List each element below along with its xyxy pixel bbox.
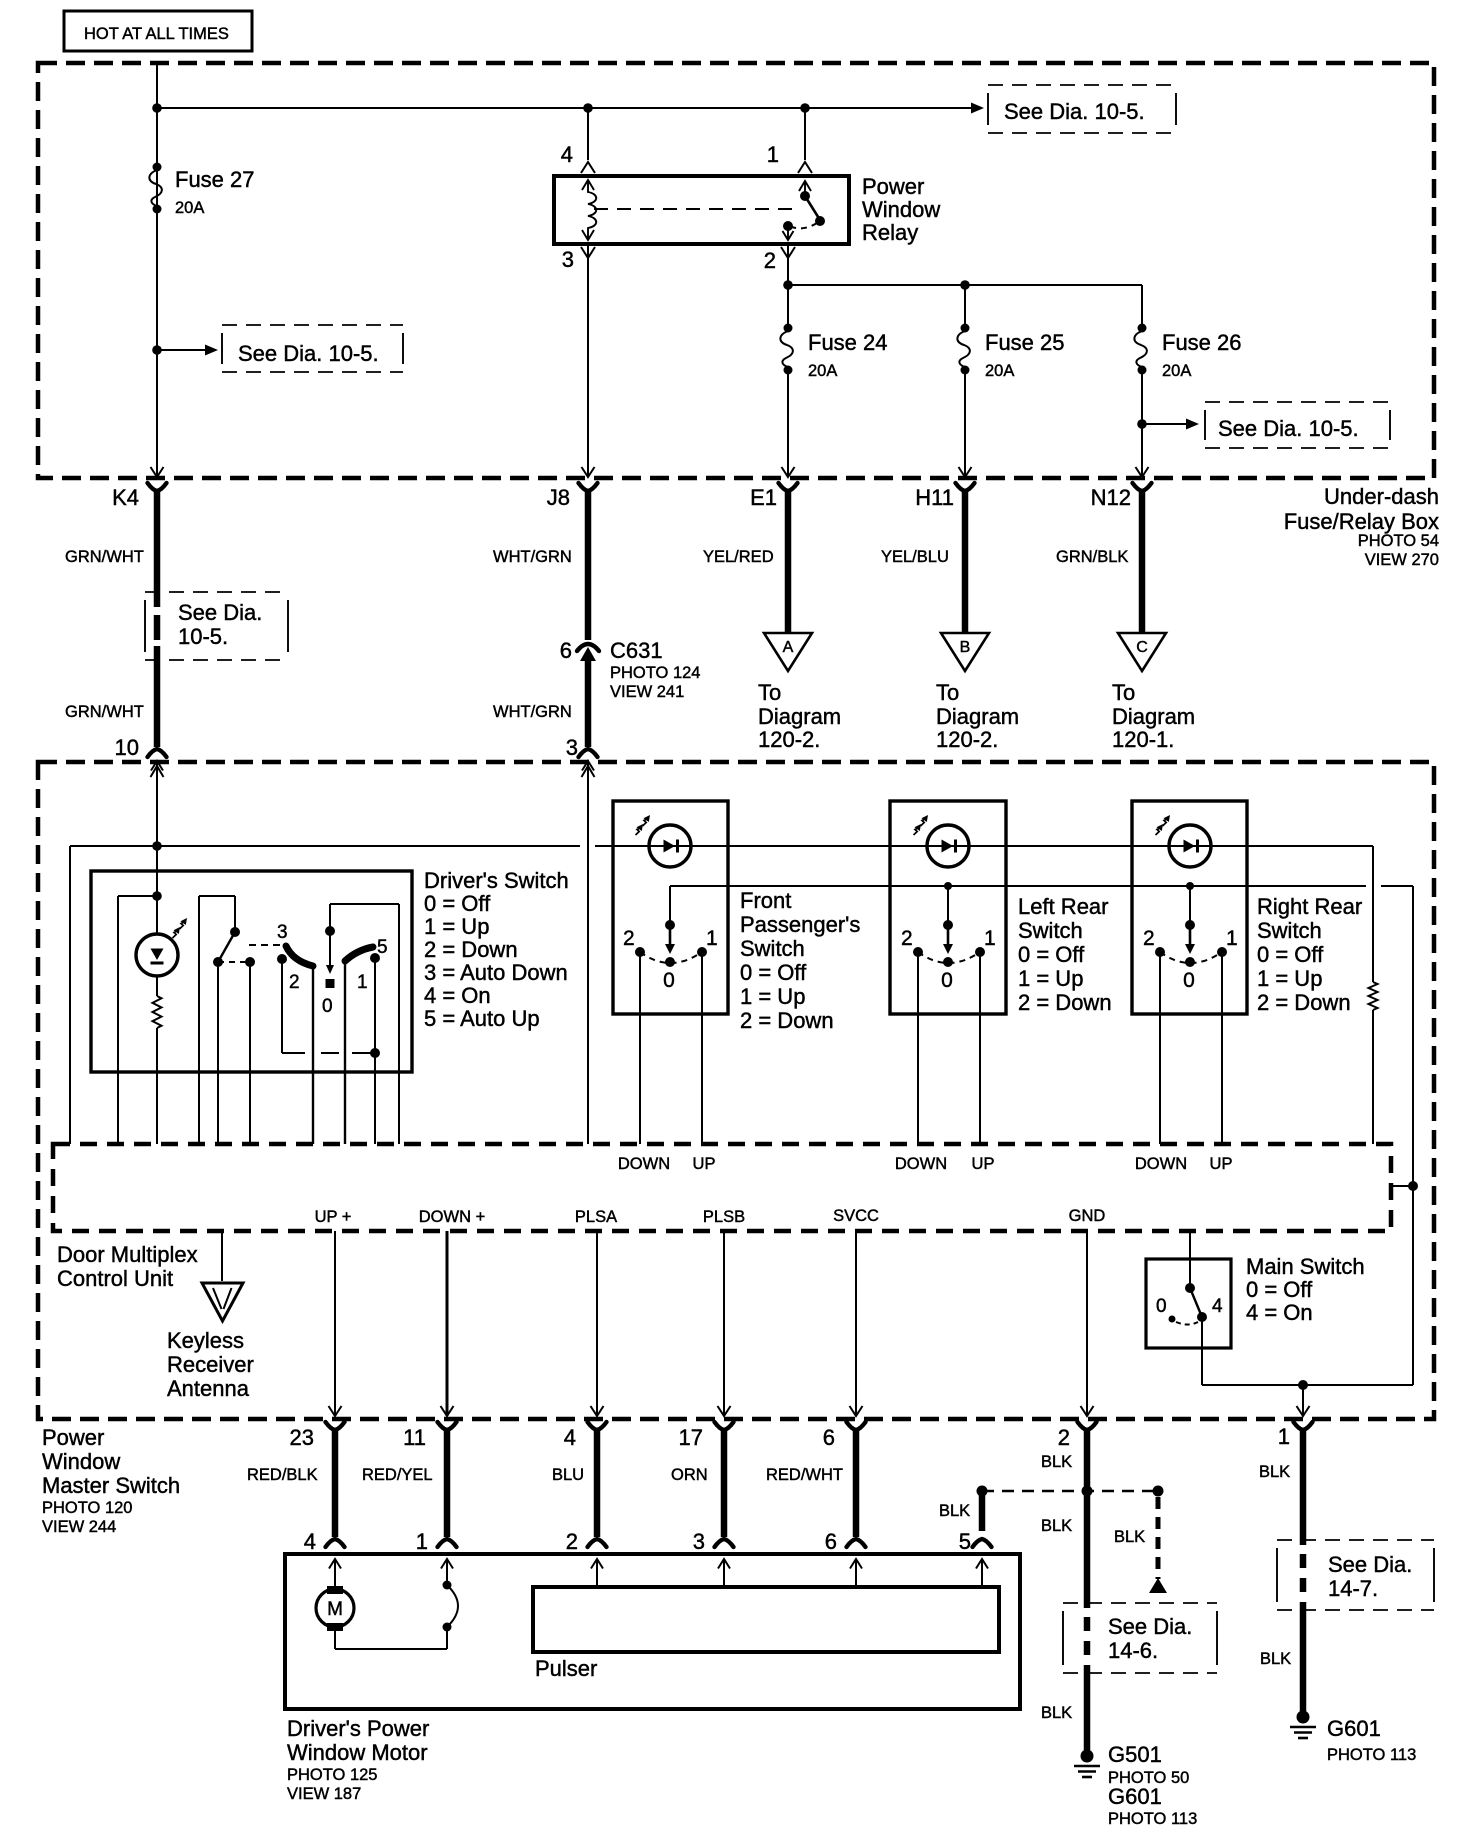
- svg-text:1: 1: [984, 927, 996, 950]
- connector pin 5 motor side: [959, 1529, 992, 1569]
- wire BLK pin2 lower: [1041, 1665, 1087, 1751]
- svg-text:Passenger's: Passenger's: [740, 912, 860, 937]
- labels left rear positions: [901, 927, 996, 992]
- left rear up contact: [975, 947, 985, 1144]
- wire BLK pin2 middle: [1041, 1491, 1087, 1608]
- connector pin 17 master switch: [679, 1422, 734, 1450]
- resistor pull-down right side: [1369, 846, 1378, 1144]
- fuse 25: [957, 285, 1064, 430]
- front passenger up contact: [697, 947, 707, 1144]
- pin 3 connector chevron: [562, 247, 595, 272]
- wire BLK pin1 lower: [1260, 1602, 1303, 1712]
- label ground G601 right: [1327, 1716, 1416, 1764]
- svg-text:6: 6: [825, 1529, 837, 1554]
- svg-text:10-5.: 10-5.: [178, 624, 228, 649]
- wire pulser pin2 entry: [596, 1559, 598, 1587]
- wire H11 YEL/BLU: [881, 490, 965, 632]
- svg-text:2: 2: [764, 248, 776, 273]
- svg-text:3: 3: [277, 922, 288, 943]
- wire relay pin2 down: [787, 244, 789, 285]
- svg-text:2: 2: [901, 927, 913, 950]
- label position 2: [289, 972, 300, 993]
- wire relay pin1 feed: [804, 108, 806, 160]
- connector N12: [1091, 483, 1152, 510]
- svg-text:VIEW 187: VIEW 187: [287, 1785, 361, 1803]
- main switch box: [1146, 1259, 1231, 1348]
- driver switch blade up: [345, 947, 373, 961]
- connector pin 1 master switch: [1278, 1422, 1313, 1449]
- svg-text:PHOTO 120: PHOTO 120: [42, 1499, 132, 1517]
- svg-text:Diagram: Diagram: [936, 704, 1019, 729]
- wire relay pin4 feed: [587, 108, 589, 160]
- svg-text:1: 1: [1278, 1424, 1290, 1449]
- svg-text:GRN/BLK: GRN/BLK: [1056, 548, 1128, 566]
- reference box See Dia. 10-5. (top right): [988, 85, 1176, 133]
- svg-text:BLK: BLK: [1260, 1650, 1291, 1668]
- right rear switch actuator: [1185, 886, 1195, 967]
- wire K4 GRN/WHT lower: [65, 646, 157, 747]
- connector K4: [112, 483, 166, 510]
- fuse 24: [780, 285, 887, 430]
- wire driver switch contact c: [249, 962, 251, 1144]
- wire driver switch contact b: [217, 962, 219, 1144]
- driver down contact: [277, 954, 287, 1053]
- labels DOWN UP left rear: [895, 1155, 995, 1173]
- svg-text:Fuse 24: Fuse 24: [808, 330, 888, 355]
- svg-text:BLK: BLK: [1259, 1463, 1290, 1481]
- label position 3: [277, 922, 288, 943]
- svg-text:See Dia.: See Dia.: [178, 600, 262, 625]
- wire top bus horizontal: [157, 107, 971, 109]
- label keyless receiver antenna: [167, 1328, 254, 1401]
- relay box power window relay: [554, 176, 849, 244]
- svg-text:Window Motor: Window Motor: [287, 1740, 428, 1765]
- svg-text:G501: G501: [1108, 1742, 1162, 1767]
- wire RED/WHT 6: [766, 1429, 856, 1537]
- svg-text:Keyless: Keyless: [167, 1328, 244, 1353]
- pin 1 connector chevron: [767, 142, 812, 173]
- labels front passenger positions: [623, 927, 718, 992]
- svg-text:0 = Off: 0 = Off: [1018, 942, 1085, 967]
- wire N12 GRN/BLK: [1056, 490, 1142, 632]
- right rear down contact: [1155, 947, 1165, 1144]
- svg-text:WHT/GRN: WHT/GRN: [493, 703, 572, 721]
- pin 2 connector chevron: [764, 247, 795, 273]
- wire K4 drop with arrow: [151, 430, 164, 477]
- svg-text:Fuse 25: Fuse 25: [985, 330, 1065, 355]
- keyless receiver antenna: [202, 1231, 243, 1321]
- right rear up contact: [1217, 947, 1227, 1144]
- svg-text:YEL/RED: YEL/RED: [703, 548, 774, 566]
- svg-text:Driver's Switch: Driver's Switch: [424, 868, 569, 893]
- page link triangle A: [764, 633, 812, 671]
- svg-text:6: 6: [560, 638, 572, 663]
- LED front passenger illumination: [636, 815, 692, 867]
- svg-text:0 = Off: 0 = Off: [424, 891, 491, 916]
- svg-text:PHOTO 113: PHOTO 113: [1108, 1810, 1197, 1828]
- svg-text:PHOTO 113: PHOTO 113: [1327, 1746, 1416, 1764]
- connector pin 6 motor side: [825, 1529, 866, 1569]
- svg-text:5 = Auto Up: 5 = Auto Up: [424, 1006, 540, 1031]
- svg-text:BLK: BLK: [1041, 1704, 1072, 1722]
- label right rear switch legend: [1257, 894, 1362, 1015]
- right rear switch dashed contact arc: [1160, 952, 1222, 963]
- labels right rear positions: [1143, 927, 1238, 992]
- wire PLSB output: [718, 1231, 731, 1416]
- motor M driver's window: [316, 1586, 354, 1631]
- driver switch blade down: [286, 946, 313, 966]
- svg-text:GRN/WHT: GRN/WHT: [65, 703, 144, 721]
- wire common rail drop right: [1408, 886, 1418, 1385]
- connector pin 2 motor side: [566, 1529, 607, 1569]
- node driver's switch supply tap: [152, 841, 162, 851]
- svg-text:Driver's Power: Driver's Power: [287, 1716, 429, 1741]
- svg-text:Under-dash: Under-dash: [1324, 484, 1439, 509]
- svg-text:WHT/GRN: WHT/GRN: [493, 548, 572, 566]
- connector pin 3 into master switch: [566, 735, 598, 846]
- ground splice dashed link: [977, 1486, 1164, 1497]
- front passenger switch dashed contact arc: [640, 952, 702, 963]
- label driver's switch legend: [424, 868, 569, 1031]
- svg-text:0: 0: [663, 969, 675, 992]
- labels DOWN UP right rear: [1135, 1155, 1233, 1173]
- label main switch legend: [1246, 1254, 1365, 1325]
- label to diagram 120-1 (C): [1112, 680, 1195, 752]
- svg-text:2: 2: [623, 927, 635, 950]
- svg-text:1 = Up: 1 = Up: [740, 984, 805, 1009]
- wire main switch to ground bus: [1202, 1317, 1413, 1385]
- svg-text:DOWN: DOWN: [618, 1155, 670, 1173]
- wire ORN 17: [671, 1429, 724, 1537]
- connector pin 6 master switch: [823, 1422, 866, 1450]
- front passenger switch actuator: [665, 886, 675, 967]
- relay actuation dashed link: [594, 208, 798, 210]
- svg-text:Pulser: Pulser: [535, 1656, 597, 1681]
- fuse 26: [1134, 285, 1241, 430]
- svg-text:C631: C631: [610, 638, 663, 663]
- svg-text:3 = Auto Down: 3 = Auto Down: [424, 960, 568, 985]
- wire UP+ output: [329, 1231, 342, 1416]
- svg-text:See Dia. 10-5.: See Dia. 10-5.: [1004, 99, 1145, 124]
- wire J8 WHT/GRN upper: [493, 490, 588, 640]
- svg-text:BLK: BLK: [1041, 1517, 1072, 1535]
- connector pin 10 into master switch: [115, 735, 167, 846]
- connector pin 3 motor side: [693, 1529, 734, 1569]
- svg-text:UP: UP: [972, 1155, 995, 1173]
- label position 1: [357, 972, 368, 993]
- svg-text:SVCC: SVCC: [833, 1207, 879, 1225]
- svg-text:A: A: [783, 639, 794, 656]
- wire K4 GRN/WHT upper: [65, 490, 157, 607]
- svg-text:See Dia.: See Dia.: [1328, 1552, 1412, 1577]
- relay switch contact: [783, 181, 826, 240]
- svg-text:Window: Window: [862, 197, 940, 222]
- svg-text:20A: 20A: [175, 199, 204, 217]
- label relay name: [862, 174, 940, 245]
- node bus junction: [152, 103, 162, 113]
- svg-text:0: 0: [1156, 1296, 1167, 1317]
- wire BLK pin2 upper: [1041, 1429, 1087, 1491]
- driver's switch box: [91, 871, 412, 1072]
- reference box See Dia. 10-5. (left): [222, 325, 403, 372]
- svg-text:DOWN: DOWN: [895, 1155, 947, 1173]
- wire pulser pin5 entry: [981, 1559, 983, 1587]
- svg-text:PLSA: PLSA: [575, 1208, 617, 1226]
- motor internal switch arc: [443, 1581, 459, 1632]
- wire driver blade-down pivot: [312, 966, 314, 1144]
- LED right rear illumination: [1156, 815, 1212, 867]
- wire K4 entry arrow into master switch: [151, 766, 164, 777]
- arrow fuse26 to See Dia 10-5 right: [1137, 419, 1199, 430]
- wire motor return: [335, 1627, 447, 1649]
- svg-text:14-7.: 14-7.: [1328, 1576, 1378, 1601]
- svg-text:120-1.: 120-1.: [1112, 727, 1174, 752]
- right rear switch box: [1132, 801, 1247, 1014]
- reference break See Dia. 14-7.: [1277, 1540, 1434, 1610]
- label position 5: [377, 937, 388, 958]
- svg-text:BLK: BLK: [1041, 1453, 1072, 1471]
- fuse 27: [149, 163, 254, 218]
- svg-text:YEL/BLU: YEL/BLU: [881, 548, 949, 566]
- svg-text:Diagram: Diagram: [758, 704, 841, 729]
- svg-text:2 = Down: 2 = Down: [1018, 990, 1112, 1015]
- svg-text:DOWN +: DOWN +: [419, 1208, 485, 1226]
- svg-text:RED/YEL: RED/YEL: [362, 1466, 433, 1484]
- svg-text:1 = Up: 1 = Up: [1018, 966, 1083, 991]
- svg-text:H11: H11: [915, 485, 954, 510]
- svg-text:BLK: BLK: [1114, 1528, 1145, 1546]
- wire stub to control unit right: [1391, 1185, 1413, 1187]
- svg-text:Front: Front: [740, 888, 791, 913]
- svg-text:Relay: Relay: [862, 220, 918, 245]
- svg-text:4 = On: 4 = On: [1246, 1300, 1313, 1325]
- svg-text:UP +: UP +: [315, 1208, 352, 1226]
- left rear switch dashed contact arc: [918, 952, 980, 963]
- wire driver switch common jumper: [199, 896, 235, 1144]
- connector pin 4 motor side: [304, 1529, 345, 1569]
- connector J8: [547, 483, 598, 510]
- wire battery feed vertical: [156, 63, 158, 430]
- svg-text:14-6.: 14-6.: [1108, 1638, 1158, 1663]
- wire BLK pin1 upper: [1259, 1429, 1303, 1545]
- svg-text:1 = Up: 1 = Up: [424, 914, 489, 939]
- wire driver pin a jumper: [118, 896, 157, 1144]
- svg-text:E1: E1: [750, 485, 777, 510]
- driver center off column: [325, 904, 335, 988]
- wire control unit to main switch: [1189, 1231, 1191, 1288]
- wire E1 drop with arrow: [782, 430, 795, 477]
- svg-text:4 = On: 4 = On: [424, 983, 491, 1008]
- connector pin 4 master switch: [564, 1422, 607, 1450]
- svg-text:BLU: BLU: [552, 1466, 584, 1484]
- wire pulser pin3 entry: [723, 1559, 725, 1587]
- wire supply rail left segment: [70, 845, 580, 847]
- svg-text:0: 0: [941, 969, 953, 992]
- wire motor pin1 entry: [446, 1559, 448, 1585]
- label pulser: [535, 1656, 597, 1681]
- label position 0: [322, 996, 333, 1017]
- svg-text:N12: N12: [1091, 485, 1131, 510]
- wire J8 WHT/GRN lower: [493, 660, 588, 747]
- svg-text:See Dia.: See Dia.: [1108, 1614, 1192, 1639]
- svg-text:4: 4: [561, 142, 573, 167]
- wire PLSA output: [591, 1231, 604, 1416]
- svg-text:2: 2: [566, 1529, 578, 1554]
- svg-text:2 = Down: 2 = Down: [1257, 990, 1351, 1015]
- svg-text:Switch: Switch: [1257, 918, 1322, 943]
- svg-text:3: 3: [562, 247, 574, 272]
- svg-text:Door Multiplex: Door Multiplex: [57, 1242, 198, 1267]
- wire driver off jumper: [330, 904, 399, 1144]
- ground G501: [1074, 1750, 1100, 1778]
- pulser box: [533, 1587, 999, 1652]
- svg-text:Fuse/Relay Box: Fuse/Relay Box: [1284, 509, 1439, 534]
- page link triangle C: [1118, 633, 1166, 671]
- wire J8 entry arrow into master switch: [582, 766, 595, 777]
- svg-text:UP: UP: [693, 1155, 716, 1173]
- svg-text:J8: J8: [547, 485, 570, 510]
- svg-text:1: 1: [416, 1529, 428, 1554]
- label power window master switch: [42, 1425, 180, 1536]
- svg-text:4: 4: [304, 1529, 316, 1554]
- front passenger down contact: [635, 947, 645, 1144]
- left rear down contact: [913, 947, 923, 1144]
- svg-text:Power: Power: [42, 1425, 104, 1450]
- wire J8 drop with arrow: [582, 430, 595, 477]
- wire supply rail right segment: [595, 845, 1373, 847]
- svg-text:0: 0: [322, 996, 333, 1017]
- node relay pin4 tap: [583, 103, 593, 113]
- svg-text:Switch: Switch: [740, 936, 805, 961]
- svg-text:To: To: [1112, 680, 1135, 705]
- svg-text:6: 6: [823, 1425, 835, 1450]
- wire E1 YEL/RED: [703, 490, 788, 632]
- svg-text:1: 1: [706, 927, 718, 950]
- svg-text:Diagram: Diagram: [1112, 704, 1195, 729]
- svg-text:1: 1: [1226, 927, 1238, 950]
- under-dash fuse/relay box dashed boundary: [38, 63, 1434, 478]
- LED left rear illumination: [914, 815, 970, 867]
- wire switch common rail: [670, 882, 1413, 890]
- svg-text:5: 5: [959, 1529, 971, 1554]
- svg-text:M: M: [327, 1599, 343, 1620]
- door multiplex control unit dashed box: [53, 1144, 1391, 1231]
- wire BLU 4: [552, 1429, 597, 1537]
- power window master switch dashed boundary: [38, 762, 1434, 1419]
- left rear switch actuator: [943, 886, 953, 967]
- connector C631: [560, 638, 701, 701]
- svg-text:4: 4: [564, 1425, 576, 1450]
- label front passenger's switch legend: [740, 888, 860, 1033]
- connector E1: [750, 483, 797, 510]
- svg-text:0 = Off: 0 = Off: [1257, 942, 1324, 967]
- reference break See Dia. 14-6.: [1063, 1603, 1217, 1673]
- svg-text:10: 10: [115, 735, 139, 760]
- wire BLK to pin 5: [939, 1491, 982, 1531]
- wire driver blade-up pivot: [344, 961, 346, 1144]
- svg-text:VIEW 244: VIEW 244: [42, 1518, 116, 1536]
- wire motor pin4 entry: [334, 1559, 336, 1586]
- svg-text:See Dia. 10-5.: See Dia. 10-5.: [1218, 416, 1359, 441]
- svg-text:DOWN: DOWN: [1135, 1155, 1187, 1173]
- wire BLK splice branch dashed: [1114, 1497, 1167, 1593]
- connector pin 11 master switch: [403, 1422, 456, 1450]
- reference box See Dia. 10-5. (right): [1205, 402, 1390, 448]
- node ground bus tap: [1298, 1380, 1308, 1390]
- svg-text:ORN: ORN: [671, 1466, 708, 1484]
- node relay pin1 tap: [800, 103, 810, 113]
- svg-text:1 = Up: 1 = Up: [1257, 966, 1322, 991]
- svg-text:2: 2: [289, 972, 300, 993]
- svg-text:Left Rear: Left Rear: [1018, 894, 1109, 919]
- driver switch lever 1: [213, 927, 240, 967]
- svg-text:20A: 20A: [1162, 362, 1191, 380]
- svg-text:GRN/WHT: GRN/WHT: [65, 548, 144, 566]
- left rear switch box: [890, 801, 1006, 1014]
- svg-text:To: To: [936, 680, 959, 705]
- arrow branch to See Dia 10-5 left: [152, 345, 218, 356]
- label ground G501 G601: [1108, 1742, 1197, 1828]
- svg-text:PHOTO 125: PHOTO 125: [287, 1766, 377, 1784]
- pin 4 connector chevron: [561, 142, 595, 173]
- svg-text:0 = Off: 0 = Off: [1246, 1277, 1313, 1302]
- svg-text:20A: 20A: [808, 362, 837, 380]
- svg-text:Switch: Switch: [1018, 918, 1083, 943]
- svg-text:C: C: [1136, 639, 1148, 656]
- labels DOWN UP front passenger: [618, 1155, 716, 1173]
- svg-text:See Dia. 10-5.: See Dia. 10-5.: [238, 341, 379, 366]
- labels control unit output pins: [315, 1207, 1106, 1226]
- svg-text:2: 2: [1143, 927, 1155, 950]
- svg-text:BLK: BLK: [939, 1502, 970, 1520]
- connector pin 2 master switch: [1058, 1422, 1097, 1450]
- svg-text:RED/WHT: RED/WHT: [766, 1466, 843, 1484]
- svg-text:Master Switch: Master Switch: [42, 1473, 180, 1498]
- label left rear switch legend: [1018, 894, 1112, 1015]
- svg-text:2 = Down: 2 = Down: [424, 937, 518, 962]
- svg-text:Fuse 26: Fuse 26: [1162, 330, 1242, 355]
- svg-text:1: 1: [357, 972, 368, 993]
- wire RED/BLK 23: [247, 1429, 335, 1537]
- page link triangle B: [941, 633, 989, 671]
- svg-text:VIEW 270: VIEW 270: [1365, 551, 1439, 569]
- driver switch mechanical link dashed: [218, 957, 255, 967]
- wire fuse bus horizontal: [783, 280, 1142, 290]
- svg-text:11: 11: [403, 1425, 426, 1450]
- svg-text:To: To: [758, 680, 781, 705]
- svg-text:VIEW 241: VIEW 241: [610, 683, 684, 701]
- wire left feeder to control unit: [69, 846, 71, 1144]
- svg-text:3: 3: [566, 735, 578, 760]
- wire SVCC output: [850, 1231, 863, 1416]
- relay coil: [582, 180, 596, 240]
- driver's power window motor box: [285, 1554, 1020, 1709]
- svg-text:Antenna: Antenna: [167, 1376, 250, 1401]
- connector pin 23 master switch: [290, 1422, 345, 1450]
- svg-text:3: 3: [693, 1529, 705, 1554]
- svg-text:B: B: [960, 639, 971, 656]
- label HOT AT ALL TIMES: [64, 11, 252, 51]
- svg-text:1: 1: [767, 142, 779, 167]
- svg-text:Control Unit: Control Unit: [57, 1266, 173, 1291]
- label door multiplex control unit: [57, 1242, 198, 1291]
- driver auto-down dashed link: [249, 944, 284, 946]
- svg-text:K4: K4: [112, 485, 139, 510]
- svg-text:120-2.: 120-2.: [758, 727, 820, 752]
- svg-text:RED/BLK: RED/BLK: [247, 1466, 318, 1484]
- label under-dash fuse/relay box: [1284, 484, 1439, 569]
- svg-text:PHOTO 124: PHOTO 124: [610, 664, 700, 682]
